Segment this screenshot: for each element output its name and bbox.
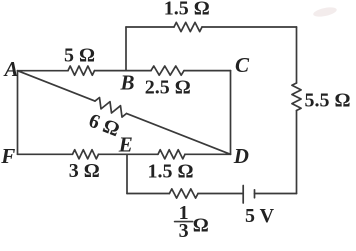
svg-text:2.5 Ω: 2.5 Ω — [145, 76, 191, 98]
wire 2.5ohm to C — [184, 70, 231, 72]
label 1/3 ohm fraction — [179, 202, 209, 242]
wire bottom rail left — [127, 193, 169, 195]
wire E to 1.5ohm — [127, 153, 158, 155]
svg-text:5 Ω: 5 Ω — [64, 45, 95, 67]
wire right lower — [296, 111, 298, 194]
battery 5V plates — [243, 186, 254, 204]
svg-text:B: B — [120, 71, 135, 95]
svg-text:1.5 Ω: 1.5 Ω — [164, 0, 210, 20]
svg-text:5 V: 5 V — [245, 205, 275, 227]
svg-text:F: F — [0, 144, 15, 168]
resistor 5.5ohm right — [292, 83, 301, 111]
svg-text:A: A — [3, 57, 19, 81]
wire top rail right — [202, 26, 297, 28]
wire left A down to F — [17, 71, 19, 155]
svg-text:5.5 Ω: 5.5 Ω — [305, 89, 351, 111]
wire right upper — [296, 27, 298, 83]
svg-text:D: D — [233, 144, 249, 168]
svg-text:E: E — [118, 132, 133, 156]
resistor 1/3 ohm bottom — [169, 189, 198, 198]
resistor 6ohm diagonal — [95, 98, 127, 118]
wire A to 5ohm — [18, 70, 69, 72]
wire C down to D — [230, 71, 232, 155]
wire diagonal A to 6ohm — [18, 71, 96, 101]
wire battery to right — [255, 193, 297, 195]
wire B riser — [125, 27, 127, 71]
resistor 1.5ohm E-D — [158, 150, 185, 159]
wire 5ohm to B — [95, 70, 127, 72]
node B junction wire — [126, 70, 151, 72]
resistor 2.5ohm B-C — [151, 66, 184, 75]
svg-text:C: C — [235, 53, 250, 77]
svg-text:3 Ω: 3 Ω — [69, 160, 100, 182]
wire F to 3ohm — [18, 153, 73, 155]
wire 1.5ohm to D — [185, 153, 231, 155]
wire E riser down — [126, 154, 128, 193]
wire 3ohm to E — [99, 153, 128, 155]
resistor 3ohm F-E — [73, 150, 99, 159]
svg-text:Ω: Ω — [193, 214, 209, 236]
svg-text:6 Ω: 6 Ω — [86, 110, 123, 142]
wire bottom rail to battery — [198, 193, 243, 195]
svg-text:1.5 Ω: 1.5 Ω — [147, 160, 193, 182]
wire top rail left — [126, 26, 174, 28]
resistor 5ohm A-B — [68, 66, 95, 75]
fraction bar — [175, 221, 193, 223]
wire diagonal 6ohm to D — [127, 114, 231, 155]
resistor 1.5ohm top — [174, 22, 202, 31]
svg-text:3: 3 — [179, 220, 189, 242]
faint smudge artifact top right — [312, 6, 337, 19]
